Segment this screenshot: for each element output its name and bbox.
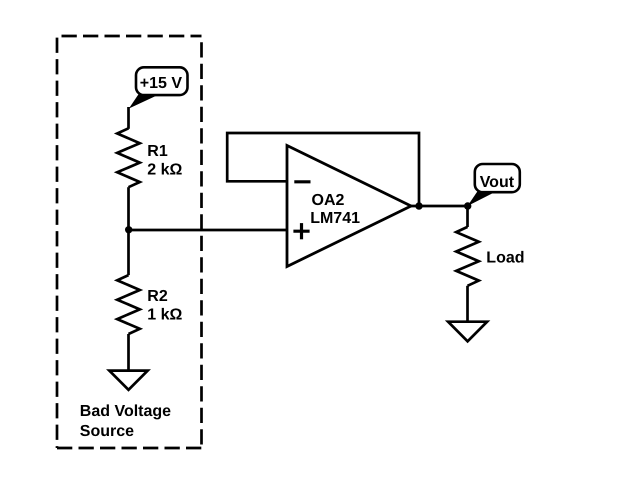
junction dot feedback tap: [415, 202, 422, 209]
svg-text:Bad Voltage: Bad Voltage: [80, 403, 171, 420]
wire Vout node to Load: [466, 206, 469, 227]
node Vout junction dot: [464, 202, 471, 209]
label Vout callout: [468, 164, 520, 206]
svg-text:Source: Source: [80, 423, 134, 440]
label R1 2 kOhm: [147, 143, 182, 179]
wire from +15V tail to R1: [127, 107, 130, 129]
svg-text:R1: R1: [147, 143, 168, 160]
label OA2 LM741: [310, 192, 360, 227]
wire node A to R2: [127, 230, 130, 275]
ground (load): [448, 322, 487, 342]
dashed enclosure Bad Voltage Source: [57, 36, 202, 448]
svg-text:2 kΩ: 2 kΩ: [147, 162, 182, 179]
svg-text:1 kΩ: 1 kΩ: [147, 307, 182, 324]
op-amp inverting input minus sign: [294, 180, 310, 183]
op-amp OA2 LM741 triangle: [287, 146, 411, 267]
op-amp non-inverting input plus sign: [293, 223, 309, 239]
svg-text:OA2: OA2: [312, 192, 345, 209]
svg-text:Vout: Vout: [480, 174, 515, 191]
wire Load to ground: [466, 286, 469, 322]
svg-text:R2: R2: [147, 288, 168, 305]
resistor Load: [456, 227, 479, 286]
wire node A to op-amp + input: [129, 229, 288, 232]
wire R1 to node A: [127, 187, 130, 230]
feedback wire output to inverting input: [227, 133, 419, 206]
label Bad Voltage Source: [80, 403, 171, 440]
power label +15 V: [129, 67, 188, 108]
wire R2 to ground: [127, 334, 130, 371]
resistor R1: [117, 128, 140, 187]
resistor R2: [117, 275, 140, 334]
output wire: [411, 205, 468, 208]
label R2 1 kOhm: [147, 288, 182, 324]
svg-text:Load: Load: [486, 249, 524, 266]
ground (bad voltage source): [109, 371, 147, 390]
svg-text:LM741: LM741: [310, 210, 360, 227]
svg-text:+15 V: +15 V: [140, 75, 183, 92]
node A junction dot: [125, 226, 132, 233]
